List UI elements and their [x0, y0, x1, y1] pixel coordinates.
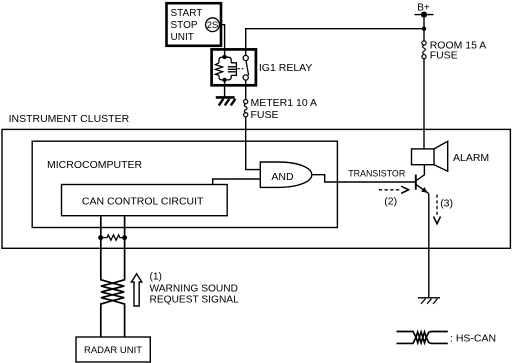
- svg-text:INSTRUMENT CLUSTER: INSTRUMENT CLUSTER: [9, 113, 130, 125]
- alarm speaker horn: [434, 141, 448, 171]
- junction dot resistor left: [98, 235, 103, 240]
- svg-text:2S: 2S: [207, 20, 219, 31]
- svg-text:MICROCOMPUTER: MICROCOMPUTER: [47, 159, 142, 171]
- box INSTRUMENT CLUSTER: [2, 129, 510, 248]
- wire CAN box to AND bottom input: [213, 179, 261, 185]
- pin 2S connector circle: [206, 18, 220, 32]
- ground alarm: [418, 297, 440, 299]
- svg-text:FUSE: FUSE: [430, 50, 458, 62]
- svg-text:UNIT: UNIT: [171, 32, 194, 43]
- wire CAN-L from CAN box: [100, 216, 102, 276]
- svg-text:IG1 RELAY: IG1 RELAY: [259, 62, 313, 74]
- svg-text:: HS-CAN: : HS-CAN: [450, 332, 496, 344]
- arrow (2) dashed: [379, 189, 402, 191]
- wire CAN-H from CAN box: [124, 216, 126, 276]
- relay switch blade: [246, 61, 249, 76]
- wire coil bottom to ground: [224, 80, 226, 97]
- arrow (3) dashed: [436, 195, 438, 217]
- svg-text:START: START: [171, 8, 203, 19]
- twisted pair wire A: [101, 275, 124, 337]
- svg-text:METER1 10 A: METER1 10 A: [251, 97, 318, 109]
- fuse ROOM 15 A: [422, 41, 426, 45]
- box CAN CONTROL CIRCUIT: [62, 185, 228, 216]
- box MICROCOMPUTER: [32, 141, 337, 227]
- gate AND: [260, 162, 312, 187]
- wire 2S to relay coil: [219, 25, 224, 57]
- box START STOP UNIT: [167, 3, 222, 46]
- svg-text:AND: AND: [271, 171, 294, 183]
- svg-text:(1): (1): [150, 272, 162, 283]
- box RADAR UNIT: [76, 337, 150, 362]
- svg-text:TRANSISTOR: TRANSISTOR: [348, 168, 405, 178]
- svg-text:(3): (3): [440, 198, 453, 210]
- relay coil resistor zigzag: [215, 63, 222, 76]
- junction dot resistor right: [122, 235, 127, 240]
- fuse METER1 10 A: [244, 100, 248, 104]
- wire ROOM fuse to alarm: [423, 59, 425, 149]
- wire METER1 fuse to AND input: [246, 117, 261, 170]
- svg-text:WARNING SOUND: WARNING SOUND: [150, 283, 238, 294]
- relay coil inductor: [228, 63, 237, 76]
- relay mechanical link dashed: [238, 68, 244, 70]
- svg-text:ALARM: ALARM: [453, 152, 489, 164]
- legend HS-CAN symbol: [397, 332, 448, 343]
- svg-text:REQUEST SIGNAL: REQUEST SIGNAL: [150, 295, 240, 306]
- transistor base bar: [415, 175, 417, 190]
- svg-text:FUSE: FUSE: [251, 109, 279, 121]
- svg-text:STOP: STOP: [171, 20, 198, 31]
- resistor terminator: [101, 235, 125, 240]
- relay IG1 RELAY box: [212, 49, 256, 85]
- junction dot coil bottom: [222, 78, 226, 82]
- relay coil loop: [219, 57, 231, 80]
- relay switch contact bottom: [243, 75, 248, 80]
- transistor collector: [416, 165, 425, 181]
- svg-text:(2): (2): [384, 195, 397, 207]
- wire switch top to B+ rail: [246, 29, 424, 56]
- wire switch bottom to METER1 fuse: [245, 80, 247, 99]
- twisted pair wire B: [101, 275, 125, 337]
- ground relay: [216, 96, 235, 99]
- wire B+ down: [423, 15, 425, 41]
- junction dot coil top: [222, 55, 226, 59]
- junction dot B+ rail: [422, 27, 426, 31]
- svg-text:RADAR UNIT: RADAR UNIT: [84, 345, 142, 356]
- svg-text:CAN CONTROL CIRCUIT: CAN CONTROL CIRCUIT: [82, 196, 204, 208]
- wire emitter down to ground: [428, 194, 430, 298]
- wire AND output to transistor base: [312, 175, 415, 182]
- arrow warning signal up hollow: [131, 274, 141, 306]
- transistor emitter with arrow: [416, 184, 429, 193]
- relay switch contact top: [243, 55, 248, 60]
- alarm speaker body: [412, 149, 435, 165]
